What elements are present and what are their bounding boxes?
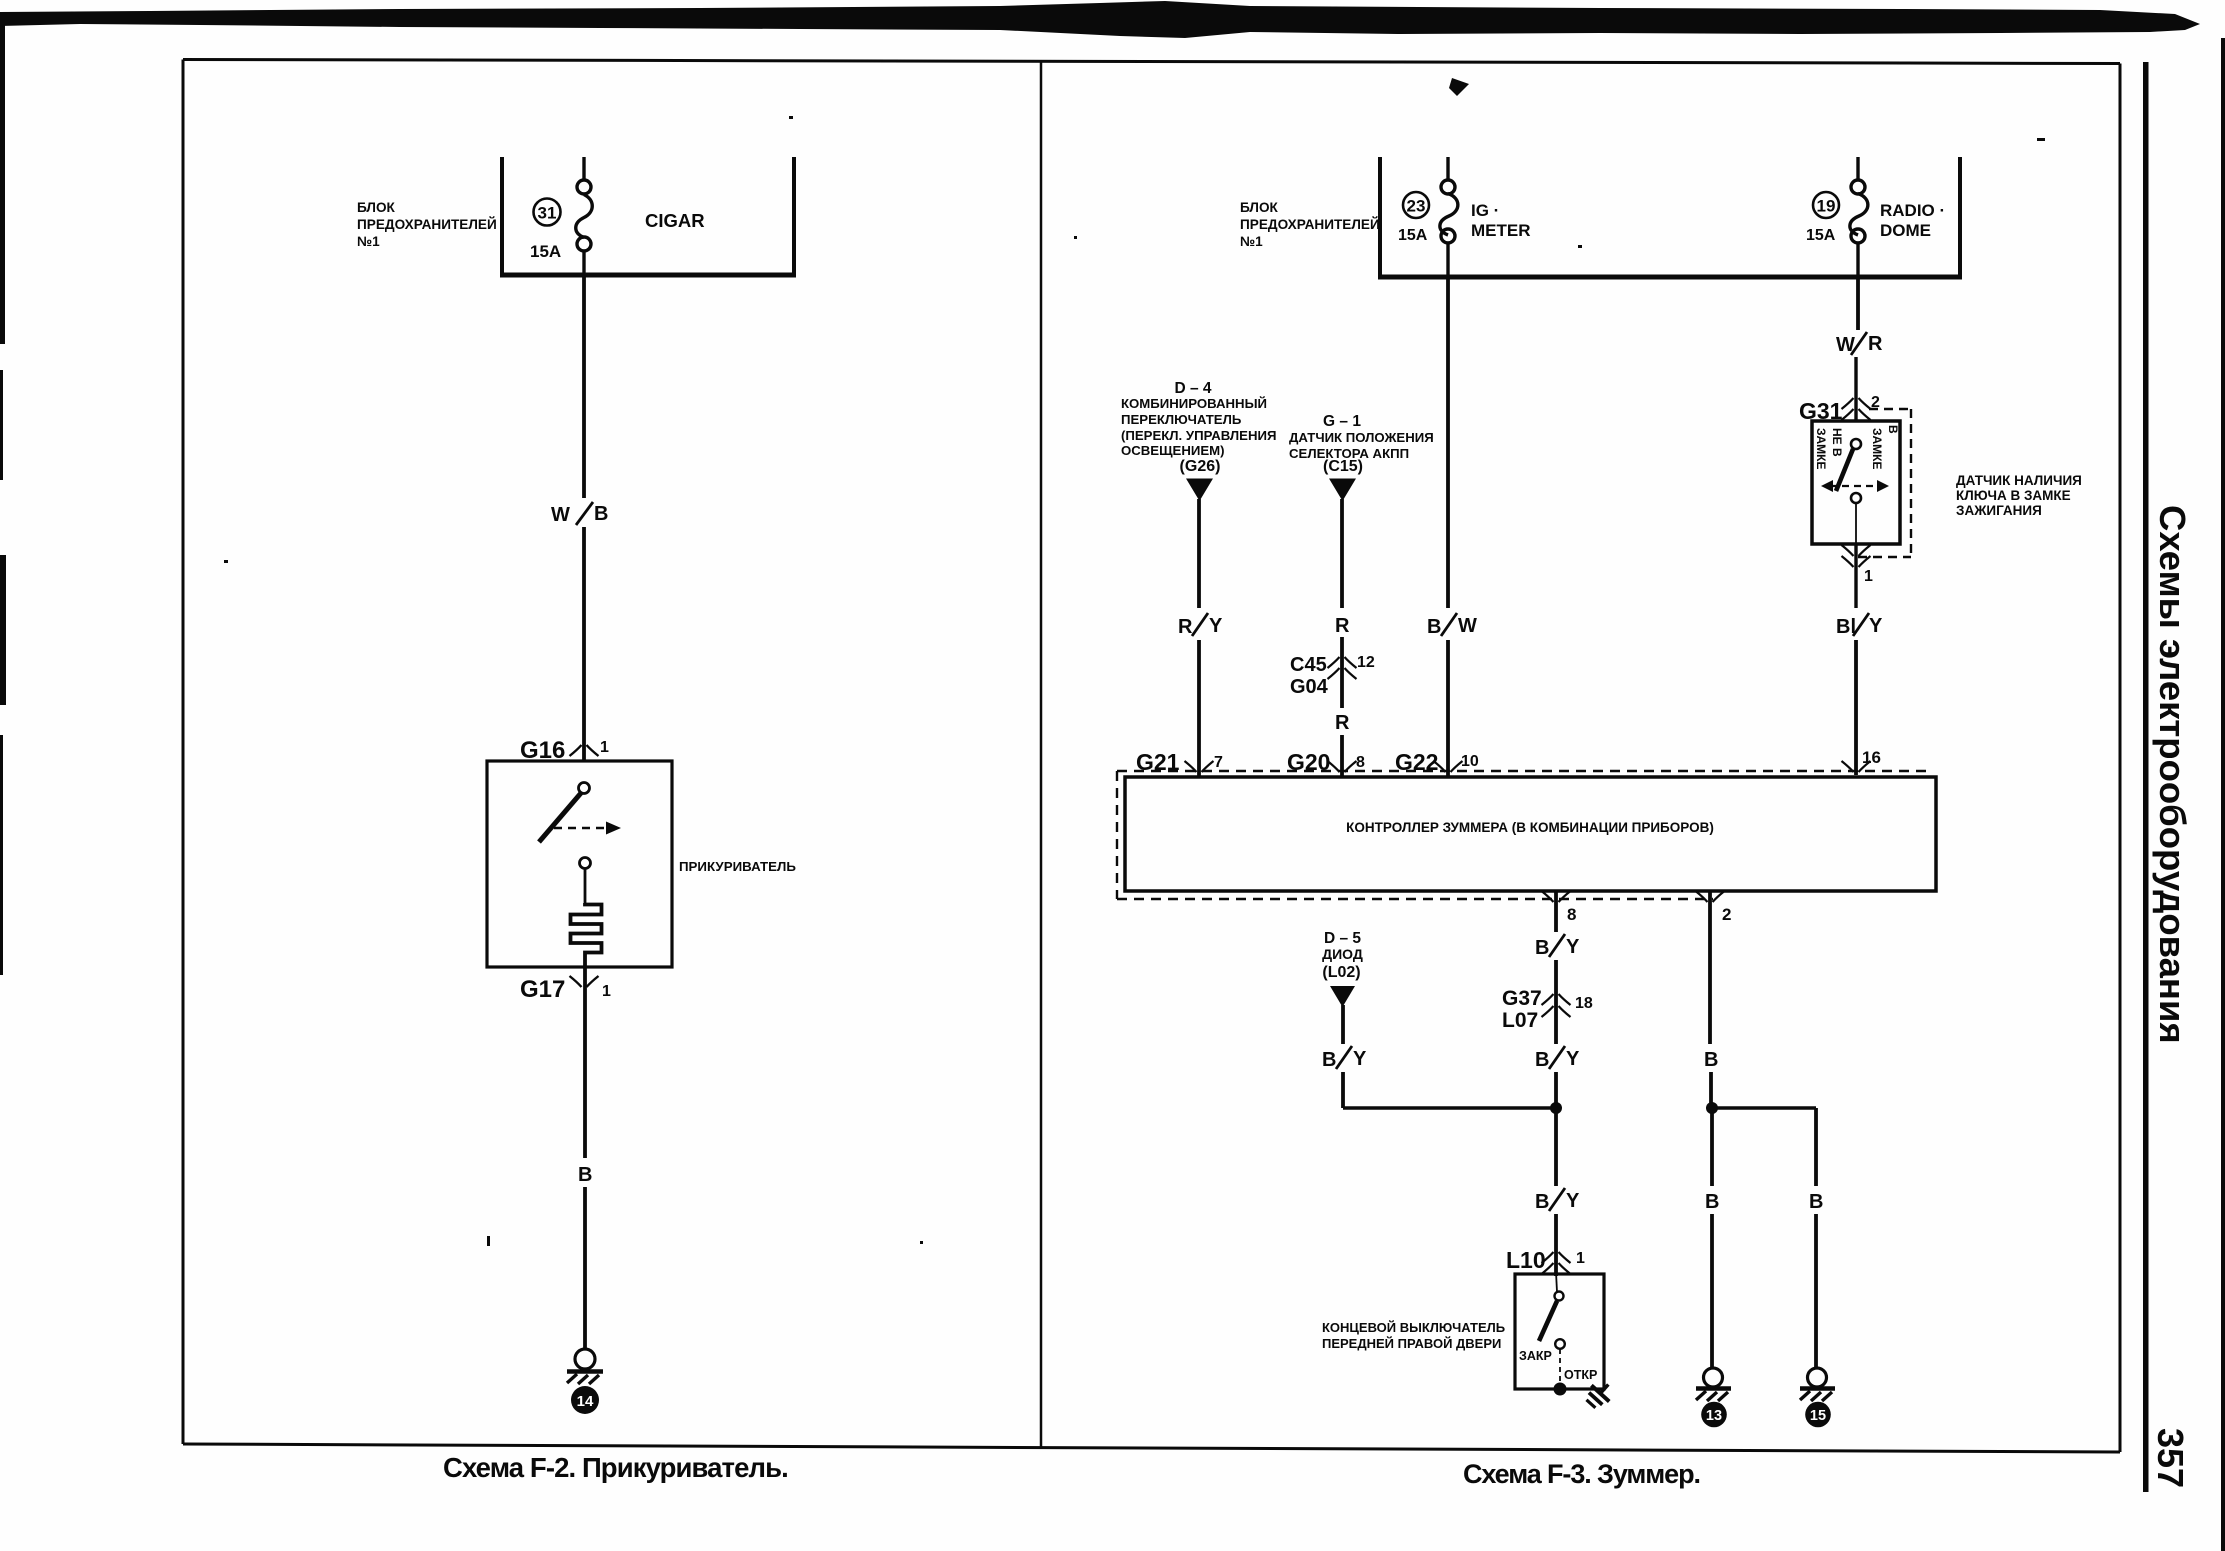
- svg-text:RADIO ·: RADIO ·: [1880, 201, 1945, 220]
- lighter switch upper contact: [579, 783, 590, 794]
- connector G22 pin 10: [1434, 761, 1446, 772]
- svg-text:18: 18: [1575, 995, 1593, 1012]
- svg-text:ЗАКР: ЗАКР: [1519, 1349, 1552, 1363]
- svg-text:Схемы электрооборудования: Схемы электрооборудования: [2152, 505, 2193, 1044]
- wire W/R lower: [1854, 357, 1857, 421]
- svg-text:16: 16: [1862, 748, 1881, 767]
- svg-text:W: W: [551, 504, 570, 526]
- wire R upper: [1340, 499, 1344, 608]
- svg-text:CIGAR: CIGAR: [645, 210, 705, 231]
- svg-text:B: B: [1705, 1191, 1719, 1213]
- svg-text:D – 4: D – 4: [1174, 380, 1211, 397]
- svg-text:НЕ В: НЕ В: [1830, 428, 1844, 457]
- wire B to ground 15: [1814, 1108, 1818, 1186]
- D-5 diode triangle: [1330, 986, 1355, 1007]
- svg-text:ПРЕДОХРАНИТЕЛЕЙ: ПРЕДОХРАНИТЕЛЕЙ: [357, 217, 497, 232]
- door switch box: [1515, 1274, 1604, 1389]
- svg-text:1: 1: [1864, 568, 1873, 585]
- svg-text:IG ·: IG ·: [1471, 201, 1499, 220]
- svg-text:D – 5: D – 5: [1324, 930, 1361, 947]
- controller pin 8: [1554, 891, 1558, 932]
- svg-text:КОНЦЕВОЙ ВЫКЛЮЧАТЕЛЬ: КОНЦЕВОЙ ВЫКЛЮЧАТЕЛЬ: [1322, 1320, 1505, 1335]
- svg-text:ПРИКУРИВАТЕЛЬ: ПРИКУРИВАТЕЛЬ: [679, 859, 796, 874]
- svg-text:БЛОК: БЛОК: [1240, 200, 1279, 215]
- wire Bl/Y lower: [1854, 640, 1858, 775]
- wire label B/W: [1427, 615, 1477, 638]
- svg-text:1: 1: [1576, 1250, 1585, 1267]
- svg-text:2: 2: [1722, 905, 1731, 924]
- lighter switch travel arrow: [554, 827, 605, 830]
- door switch ground (slanted): [1582, 1376, 1617, 1411]
- svg-text:Y: Y: [1566, 1190, 1580, 1212]
- wire B upper segment: [583, 967, 587, 1158]
- svg-text:METER: METER: [1471, 221, 1531, 240]
- svg-text:(L02): (L02): [1322, 964, 1360, 981]
- svg-text:ПРЕДОХРАНИТЕЛЕЙ: ПРЕДОХРАНИТЕЛЕЙ: [1240, 217, 1380, 232]
- wire label Bl/Y: [1836, 615, 1883, 638]
- label fuse block No1 (left): [357, 200, 497, 249]
- svg-text:G04: G04: [1290, 676, 1329, 698]
- ground body 13: [1704, 1368, 1723, 1387]
- fuse number 23: [1403, 192, 1429, 218]
- svg-text:Y: Y: [1209, 615, 1223, 637]
- label key sensor: [1956, 473, 2082, 518]
- junction right branch: [1706, 1102, 1718, 1114]
- scan edge left: [0, 14, 5, 344]
- svg-text:G17: G17: [520, 976, 565, 1003]
- svg-text:19: 19: [1817, 197, 1836, 216]
- wire B to ground 13: [1710, 1108, 1714, 1186]
- wire R/Y lower: [1197, 640, 1201, 777]
- svg-text:13: 13: [1706, 1408, 1722, 1424]
- connector G21 pin 7: [1185, 761, 1197, 772]
- svg-text:(ПЕРЕКЛ. УПРАВЛЕНИЯ: (ПЕРЕКЛ. УПРАВЛЕНИЯ: [1121, 428, 1276, 443]
- svg-text:B: B: [1809, 1191, 1823, 1213]
- svg-text:14: 14: [577, 1393, 594, 1410]
- svg-text:B: B: [1427, 616, 1441, 638]
- wire contact to pin1: [1855, 503, 1857, 549]
- D-4 combination switch header: [1121, 380, 1276, 475]
- cigarette lighter box: [487, 761, 672, 967]
- sidebar rule: [2143, 62, 2149, 1492]
- wire B/W lower: [1446, 640, 1450, 777]
- connector G31 pin 1: [1842, 545, 1854, 556]
- connector G20 pin 8: [1328, 761, 1340, 772]
- wire into fuse 19: [1856, 157, 1859, 181]
- svg-text:ДИОД: ДИОД: [1322, 946, 1363, 962]
- svg-text:R: R: [1868, 333, 1883, 355]
- svg-text:Y: Y: [1869, 615, 1883, 637]
- svg-text:B: B: [1535, 1191, 1549, 1213]
- svg-text:B: B: [594, 503, 608, 525]
- svg-text:7: 7: [1214, 754, 1223, 771]
- svg-text:ЗАМКЕ: ЗАМКЕ: [1814, 428, 1828, 470]
- fuse 31 symbol: [576, 180, 593, 251]
- svg-text:ЗАМКЕ: ЗАМКЕ: [1870, 428, 1884, 470]
- G-1 selector sensor header: [1289, 413, 1434, 475]
- wire label W/B: [551, 503, 608, 526]
- svg-text:R: R: [1335, 615, 1350, 637]
- svg-text:1: 1: [600, 739, 609, 756]
- svg-text:Y: Y: [1566, 1048, 1580, 1070]
- svg-text:DOME: DOME: [1880, 221, 1931, 240]
- svg-text:ЗАЖИГАНИЯ: ЗАЖИГАНИЯ: [1956, 503, 2042, 518]
- D-5 diode header: [1322, 930, 1363, 981]
- svg-text:ОТКР: ОТКР: [1564, 1368, 1597, 1382]
- key sensor box G31: [1812, 421, 1900, 544]
- fuse number 31: [534, 199, 561, 226]
- svg-text:№1: №1: [1240, 234, 1263, 249]
- ground body 15: [1808, 1368, 1827, 1387]
- svg-text:8: 8: [1356, 754, 1365, 771]
- svg-text:15A: 15A: [1398, 227, 1428, 244]
- ground ref 14: [571, 1386, 599, 1414]
- svg-text:L10: L10: [1506, 1247, 1546, 1273]
- svg-text:15A: 15A: [530, 242, 561, 261]
- svg-text:(G26): (G26): [1180, 458, 1221, 475]
- wire R/Y upper: [1197, 499, 1201, 608]
- wire into fuse 31: [582, 157, 585, 181]
- svg-text:В: В: [1886, 425, 1900, 434]
- svg-text:ОСВЕЩЕНИЕМ): ОСВЕЩЕНИЕМ): [1121, 443, 1225, 458]
- svg-text:Y: Y: [1353, 1048, 1367, 1070]
- wire fuse31 to box bottom: [582, 251, 585, 277]
- wire B/Y to door switch: [1554, 1108, 1558, 1186]
- svg-text:КОНТРОЛЛЕР ЗУММЕРА (В КОМБИНАЦ: КОНТРОЛЛЕР ЗУММЕРА (В КОМБИНАЦИИ ПРИБОРО…: [1346, 820, 1714, 835]
- svg-text:10: 10: [1461, 753, 1479, 770]
- svg-text:КЛЮЧА В ЗАМКЕ: КЛЮЧА В ЗАМКЕ: [1956, 488, 2071, 503]
- label door switch: [1322, 1320, 1505, 1351]
- fuse 19 symbol: [1850, 180, 1868, 243]
- D-4 feed triangle: [1186, 479, 1213, 502]
- buzzer controller dashed outline: [1117, 771, 1930, 899]
- wire label W/R: [1836, 333, 1883, 356]
- svg-text:ПЕРЕДНЕЙ ПРАВОЙ ДВЕРИ: ПЕРЕДНЕЙ ПРАВОЙ ДВЕРИ: [1322, 1336, 1501, 1351]
- scan speck marks: [1449, 78, 1469, 96]
- connector G16 pin 1: [570, 745, 582, 756]
- svg-text:ДАТЧИК ПОЛОЖЕНИЯ: ДАТЧИК ПОЛОЖЕНИЯ: [1289, 430, 1434, 445]
- svg-text:W: W: [1458, 615, 1477, 637]
- svg-text:Схема F-3. Зуммер.: Схема F-3. Зуммер.: [1463, 1459, 1700, 1489]
- ground ref 15: [1805, 1402, 1831, 1428]
- svg-text:Схема F-2. Прикуриватель.: Схема F-2. Прикуриватель.: [443, 1452, 788, 1483]
- wire R to G20: [1340, 735, 1344, 777]
- fuse number 19: [1813, 192, 1839, 218]
- wire W/B upper segment: [582, 275, 586, 498]
- svg-text:№1: №1: [357, 234, 380, 249]
- svg-text:B: B: [1704, 1049, 1718, 1071]
- wire Bl/Y upper: [1854, 544, 1857, 608]
- wire into fuse 23: [1446, 157, 1449, 181]
- door switch junction dot: [1554, 1383, 1567, 1396]
- wire B (pin2): [1708, 932, 1712, 1044]
- key sensor dashed outline: [1858, 409, 1911, 557]
- fuse box No.1 bracket (right): [1378, 157, 1962, 277]
- svg-text:R: R: [1178, 616, 1193, 638]
- wire B/Y below G37: [1535, 1048, 1580, 1071]
- svg-text:G – 1: G – 1: [1323, 413, 1361, 430]
- svg-text:15: 15: [1810, 1408, 1826, 1424]
- svg-text:357: 357: [2150, 1428, 2191, 1488]
- scan edge right: [2221, 38, 2225, 1551]
- svg-text:R: R: [1335, 712, 1350, 734]
- svg-text:ДАТЧИК НАЛИЧИЯ: ДАТЧИК НАЛИЧИЯ: [1956, 473, 2082, 488]
- wire B/Y (pin8): [1535, 936, 1580, 959]
- lighter lower contact: [580, 858, 591, 869]
- panel divider: [1040, 62, 1043, 1448]
- wire label R/Y: [1178, 615, 1223, 638]
- connector G31 pin 2: [1842, 398, 1854, 409]
- wire B/W upper: [1446, 277, 1450, 608]
- wire B lower segment: [583, 1187, 587, 1349]
- wire contact to heater: [584, 869, 587, 903]
- svg-text:G37: G37: [1502, 987, 1542, 1010]
- page frame: [183, 60, 2120, 1453]
- ground body G14: [575, 1349, 595, 1369]
- svg-text:1: 1: [602, 983, 611, 1000]
- svg-text:B: B: [1322, 1049, 1336, 1071]
- svg-text:15A: 15A: [1806, 227, 1836, 244]
- key switch contacts: [1851, 439, 1861, 449]
- door switch contacts: [1555, 1292, 1564, 1301]
- fuse 23 symbol: [1440, 180, 1458, 243]
- svg-text:8: 8: [1567, 905, 1576, 924]
- G-1 feed triangle: [1329, 479, 1356, 502]
- wire B/Y from diode: [1341, 1005, 1345, 1044]
- wire into door switch: [1556, 1272, 1557, 1292]
- svg-text:B: B: [578, 1164, 592, 1186]
- svg-text:КОМБИНИРОВАННЫЙ: КОМБИНИРОВАННЫЙ: [1121, 396, 1267, 411]
- lighter switch lever: [539, 793, 581, 842]
- svg-text:(C15): (C15): [1323, 458, 1363, 475]
- wire R mid: [1340, 637, 1344, 708]
- connector pin 16: [1842, 761, 1854, 772]
- svg-text:C45: C45: [1290, 654, 1327, 676]
- svg-text:БЛОК: БЛОК: [357, 200, 396, 215]
- ground ref 13: [1701, 1402, 1727, 1428]
- svg-text:23: 23: [1407, 197, 1426, 216]
- svg-text:31: 31: [538, 204, 557, 223]
- svg-text:L07: L07: [1502, 1009, 1538, 1032]
- connector G17 pin 1: [570, 976, 582, 987]
- junction left branch: [1343, 1106, 1556, 1109]
- svg-text:ПЕРЕКЛЮЧАТЕЛЬ: ПЕРЕКЛЮЧАТЕЛЬ: [1121, 412, 1242, 427]
- heater element: [571, 903, 602, 967]
- svg-text:Y: Y: [1566, 936, 1580, 958]
- controller pin 2: [1708, 891, 1712, 932]
- fuse box No.1 bracket (left): [500, 157, 796, 275]
- label fuse block No1 (right): [1240, 200, 1380, 249]
- scan band top: [0, 1, 2200, 38]
- svg-text:B: B: [1535, 937, 1549, 959]
- svg-text:B: B: [1535, 1049, 1549, 1071]
- buzzer controller box: [1125, 777, 1936, 891]
- svg-text:12: 12: [1357, 654, 1375, 671]
- wire W/B lower segment: [582, 527, 586, 761]
- wire W/R upper: [1856, 277, 1860, 330]
